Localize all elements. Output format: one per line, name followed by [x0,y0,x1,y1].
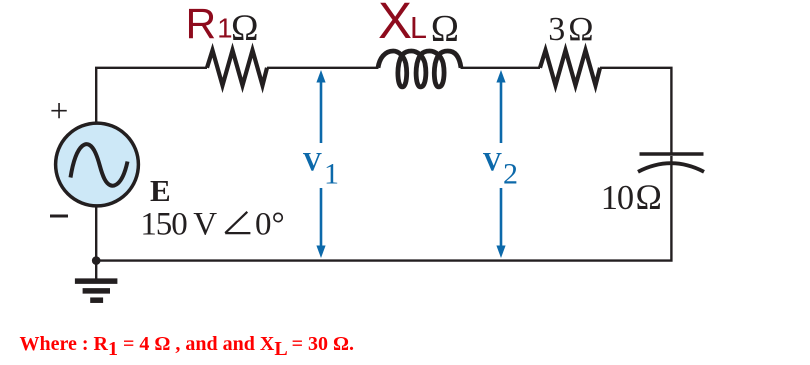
capacitor bottom plate arc [638,163,704,172]
wire top far right (3ohm to corner, down to capacitor) [600,68,671,153]
source sine wave [71,144,128,186]
arrow V1 [316,70,325,258]
svg-text:V: V [193,206,217,242]
wire right below capacitor [96,156,671,261]
junction dot [92,256,101,265]
svg-text:Ω: Ω [231,8,259,49]
svg-text:R: R [186,1,217,48]
svg-text:2: 2 [503,158,518,191]
resistor 3ohm [540,50,600,85]
svg-text:0°: 0° [255,206,285,242]
source E circle [56,123,139,206]
arrow V2 [496,70,505,258]
svg-text:150: 150 [140,206,187,242]
wire top right (inductor to 3ohm resistor) [461,67,541,69]
ground [75,281,118,300]
svg-text:L: L [410,11,427,45]
svg-text:X: X [378,0,412,49]
svg-text:Ω: Ω [568,11,593,48]
wire top middle (R1 to inductor) [267,67,379,69]
angle symbol [225,212,250,233]
svg-text:V: V [483,147,502,177]
resistor R1 [207,50,267,85]
svg-text:V: V [303,147,322,177]
svg-text:+: + [50,94,69,130]
wire top left (source top to R1) [96,68,207,124]
minus sign [50,215,68,218]
svg-text:3: 3 [548,11,565,48]
svg-text:Ω: Ω [431,8,459,50]
capacitor top plate [640,152,704,156]
wire source bottom to ground [95,124,97,279]
inductor XL [378,51,461,87]
svg-text:E: E [150,173,171,208]
svg-text:10: 10 [601,179,633,217]
svg-text:1: 1 [324,158,339,191]
svg-text:Where : R1 = 4 Ω , and and XL: Where : R1 = 4 Ω , and and XL = 30 Ω. [20,333,355,360]
svg-text:Ω: Ω [636,177,662,217]
